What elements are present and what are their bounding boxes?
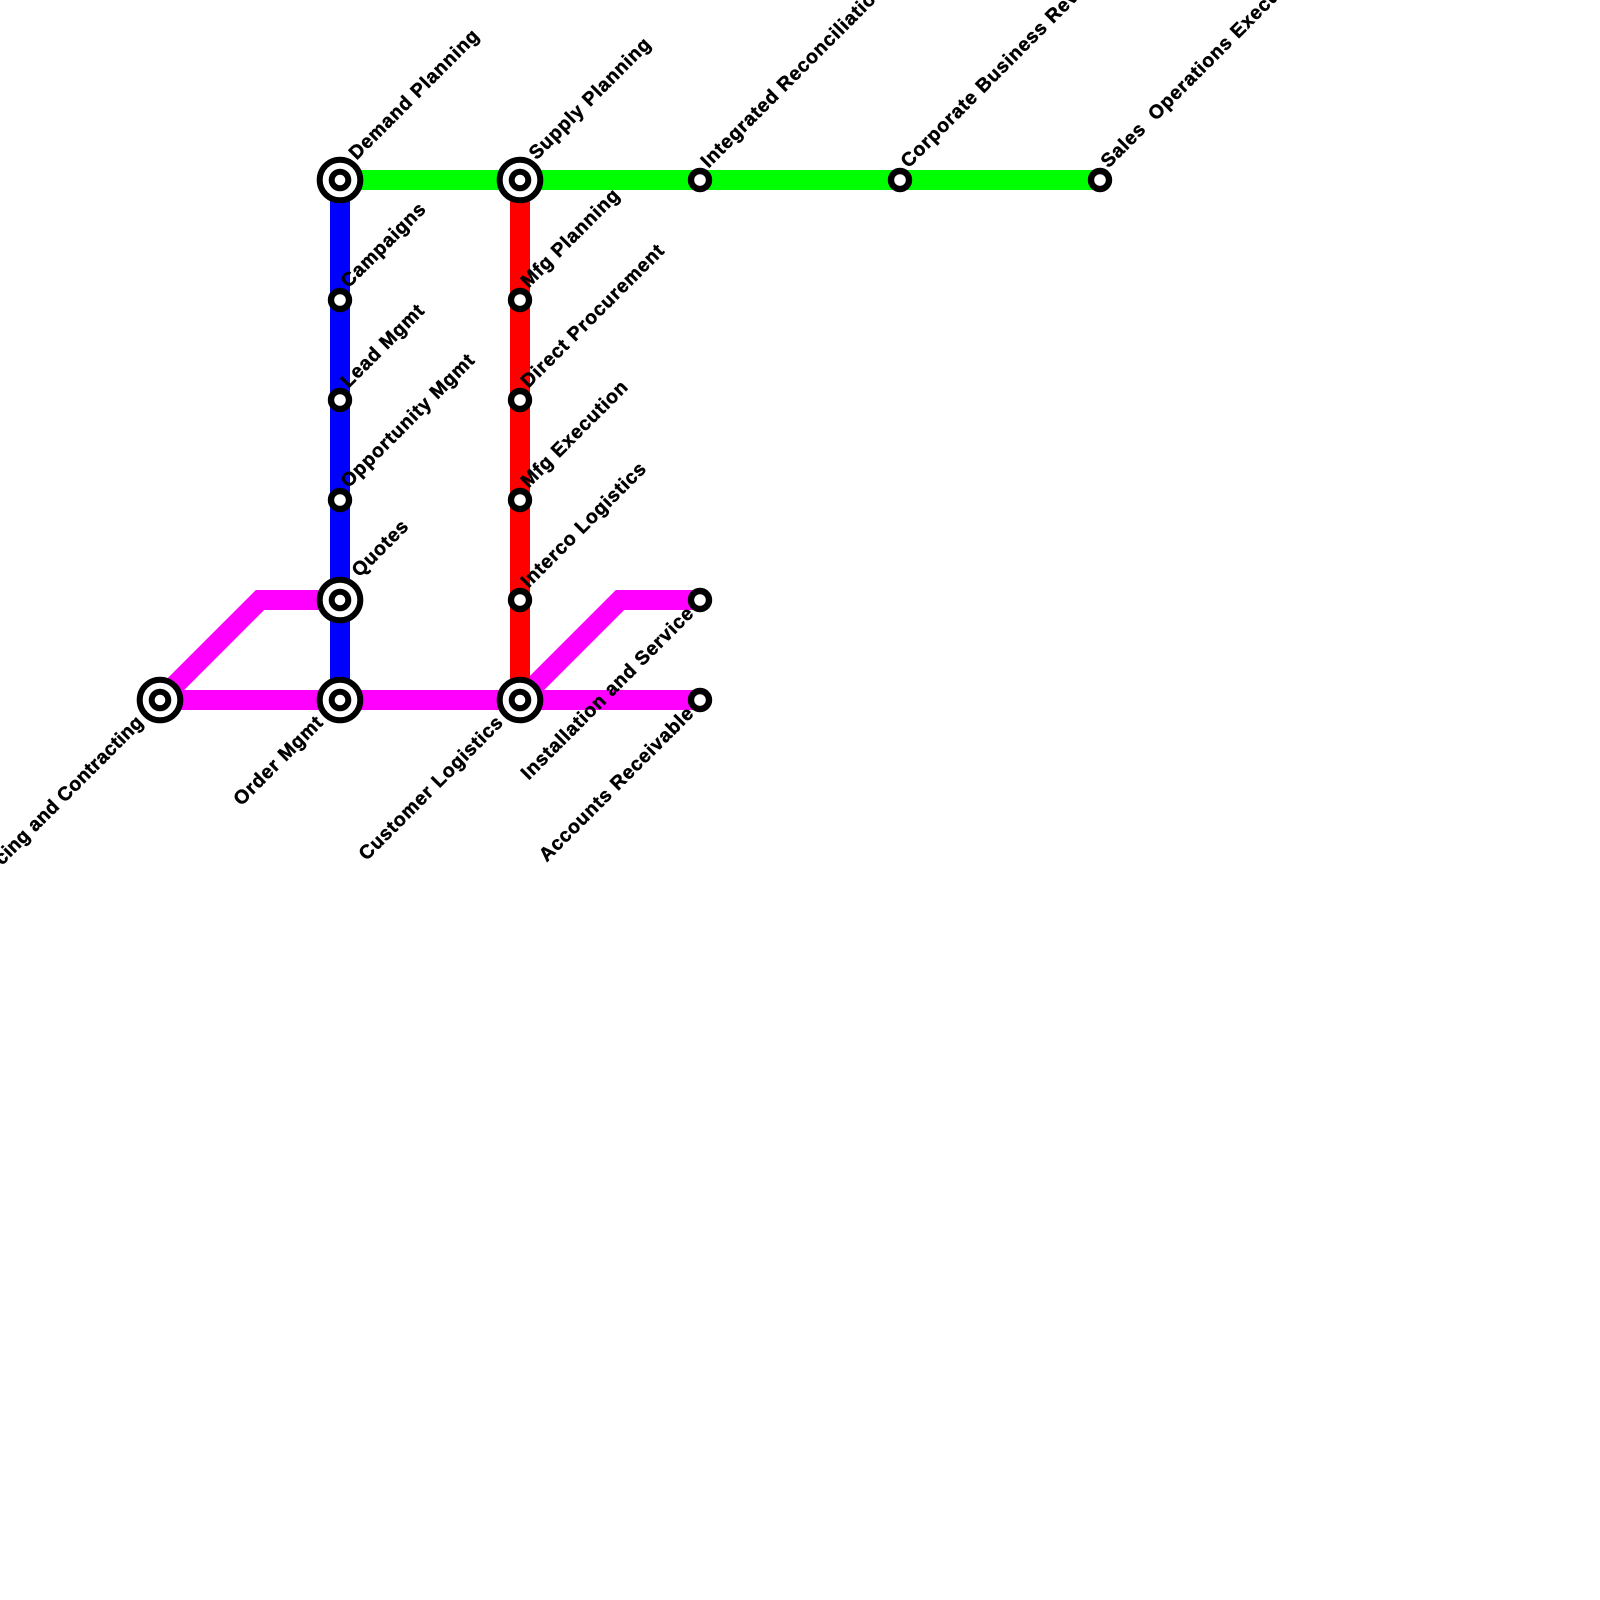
station Lead Mgmt — [331, 391, 349, 409]
magenta line branch: Customer Logistics - Installation and Service — [520, 600, 700, 700]
station Sourcing and Contracting (interchange) — [140, 680, 181, 721]
station Mfg Planning — [511, 291, 529, 309]
magenta line branch: Sourcing and Contracting - Quotes — [160, 600, 340, 700]
station Corporate Business Review — [891, 171, 909, 189]
magenta line main: Sourcing and Contracting - Accounts Receivable — [160, 690, 700, 710]
station Order Mgmt (interchange) — [320, 680, 361, 721]
green line: Demand Planning - Sales Operations Execution — [340, 170, 1100, 190]
station Mfg Execution — [511, 491, 529, 509]
station Customer Logistics (interchange) — [500, 680, 541, 721]
station Installation and Service — [691, 591, 709, 609]
station Campaigns — [331, 291, 349, 309]
station Accounts Receivable — [691, 691, 709, 709]
station Demand Planning (interchange) — [320, 160, 361, 201]
station Quotes (interchange) — [320, 580, 361, 621]
blue line: Demand Planning - Order Mgmt — [330, 180, 350, 700]
station Integrated Reconciliation — [691, 171, 709, 189]
station Supply Planning (interchange) — [500, 160, 541, 201]
station Sales Operations Execution — [1091, 171, 1109, 189]
station Opportunity Mgmt — [331, 491, 349, 509]
station Direct Procurement — [511, 391, 529, 409]
station Interco Logistics — [511, 591, 529, 609]
red line: Supply Planning - Customer Logistics — [510, 180, 530, 700]
